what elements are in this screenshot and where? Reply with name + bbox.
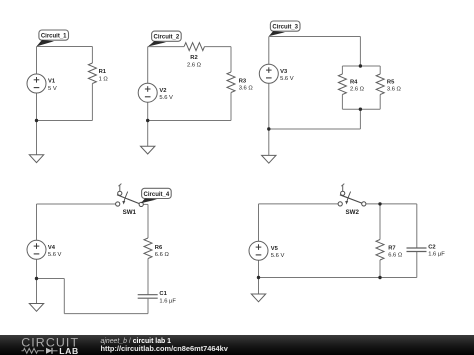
svg-text:V3: V3 bbox=[280, 69, 288, 75]
svg-text:3.6 Ω: 3.6 Ω bbox=[387, 87, 402, 93]
svg-text:R4: R4 bbox=[350, 79, 358, 85]
svg-text:1.6 µF: 1.6 µF bbox=[159, 298, 176, 304]
svg-text:1.6 µF: 1.6 µF bbox=[428, 252, 445, 258]
svg-text:R5: R5 bbox=[387, 79, 395, 85]
svg-text:SW2: SW2 bbox=[345, 209, 359, 216]
svg-text:V2: V2 bbox=[159, 88, 166, 94]
svg-text:5.6 V: 5.6 V bbox=[271, 253, 285, 259]
svg-text:R1: R1 bbox=[99, 69, 107, 75]
svg-text:LAB: LAB bbox=[59, 346, 78, 355]
svg-text:2.6 Ω: 2.6 Ω bbox=[187, 62, 202, 68]
svg-text:6.6 Ω: 6.6 Ω bbox=[155, 252, 170, 258]
svg-text:6.6 Ω: 6.6 Ω bbox=[388, 252, 403, 258]
svg-text:C1: C1 bbox=[159, 291, 167, 297]
svg-text:R2: R2 bbox=[190, 55, 197, 61]
svg-text:1 Ω: 1 Ω bbox=[99, 76, 109, 82]
svg-text:5.6 V: 5.6 V bbox=[48, 252, 62, 258]
svg-text:V1: V1 bbox=[48, 79, 56, 85]
svg-text:5 V: 5 V bbox=[48, 86, 57, 92]
svg-text:C2: C2 bbox=[428, 244, 435, 250]
svg-text:Circuit_2: Circuit_2 bbox=[154, 35, 180, 41]
svg-text:R7: R7 bbox=[388, 245, 395, 251]
svg-text:R6: R6 bbox=[155, 245, 163, 251]
svg-text:R3: R3 bbox=[239, 78, 247, 84]
svg-text:5.6 V: 5.6 V bbox=[159, 95, 173, 101]
svg-text:5.6 V: 5.6 V bbox=[280, 76, 294, 82]
svg-text:SW1: SW1 bbox=[123, 209, 137, 216]
svg-text:Circuit_3: Circuit_3 bbox=[272, 25, 298, 31]
svg-text:http://circuitlab.com/cn8e6mt7: http://circuitlab.com/cn8e6mt7464kv bbox=[101, 344, 229, 353]
svg-text:Circuit_4: Circuit_4 bbox=[144, 192, 170, 198]
svg-text:V5: V5 bbox=[271, 246, 279, 252]
svg-text:V4: V4 bbox=[48, 245, 56, 251]
svg-text:2.6 Ω: 2.6 Ω bbox=[350, 87, 365, 93]
svg-text:3.6 Ω: 3.6 Ω bbox=[239, 85, 254, 91]
svg-text:Circuit_1: Circuit_1 bbox=[41, 34, 67, 40]
